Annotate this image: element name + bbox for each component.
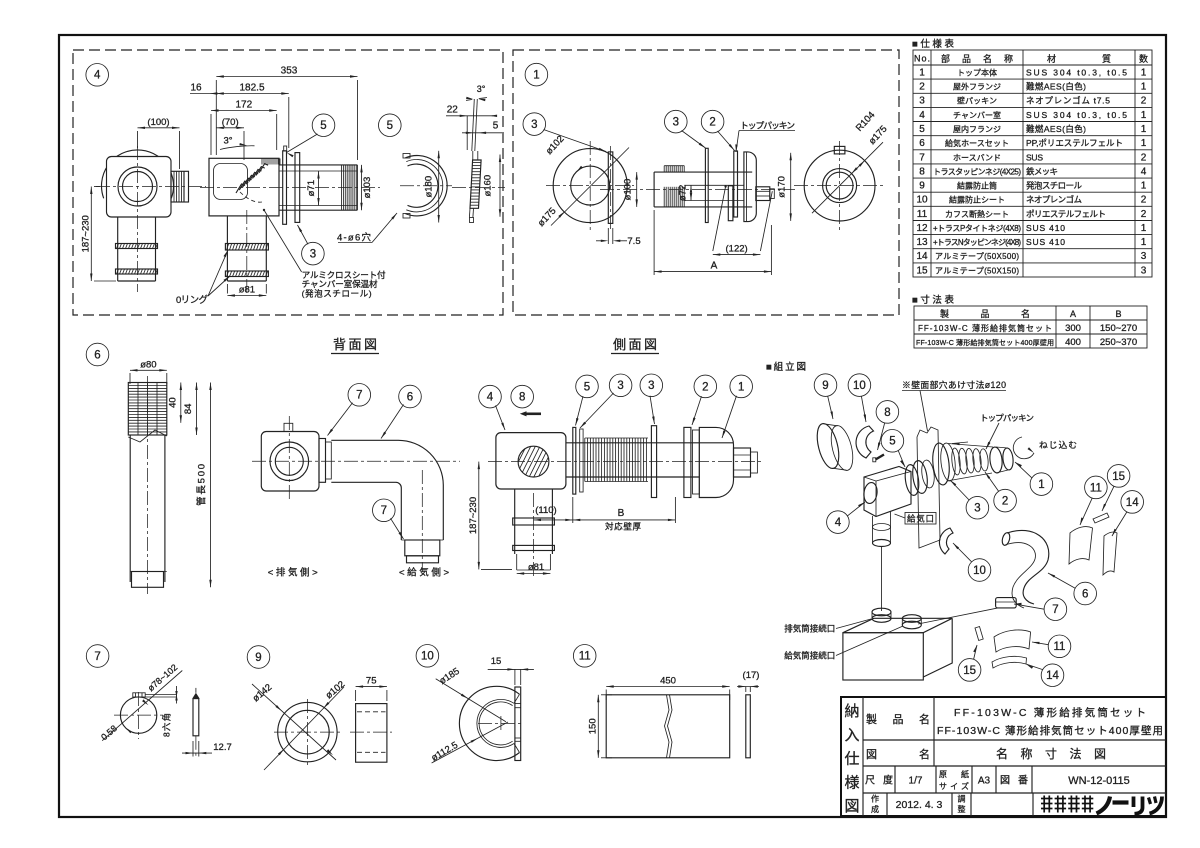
- svg-text:9: 9: [919, 181, 925, 192]
- svg-text:FF-103W-C 薄形給排気筒セット: FF-103W-C 薄形給排気筒セット: [954, 706, 1146, 719]
- bottom pipe: [516, 554, 518, 570]
- svg-text:13: 13: [916, 237, 928, 248]
- dim (122): [713, 254, 761, 256]
- dim 172: [211, 110, 277, 112]
- balloon 5: [881, 430, 904, 453]
- svg-text:3: 3: [310, 249, 316, 261]
- svg-text:発泡スチロール: 発泡スチロール: [1026, 181, 1082, 191]
- balloon 3: [302, 242, 325, 265]
- dim 182.5 + 16: [216, 93, 288, 95]
- packing front circle: [553, 149, 627, 223]
- thin sheet: [746, 695, 751, 758]
- corrugation near box: [261, 159, 263, 165]
- balloon 10: [968, 559, 991, 582]
- balloon 3b: [665, 110, 688, 133]
- svg-text:10: 10: [973, 565, 986, 577]
- balloon 8: [876, 401, 899, 424]
- side view 側面図: [468, 337, 764, 576]
- svg-text:トップ本体: トップ本体: [957, 68, 997, 78]
- svg-text:4: 4: [94, 70, 101, 82]
- balloon 11 detail: [573, 645, 596, 668]
- dim 12.7: [182, 752, 212, 754]
- svg-text:(70): (70): [222, 117, 239, 128]
- dim 353: [216, 76, 357, 78]
- svg-text:トップパッキン: トップパッキン: [740, 121, 795, 131]
- svg-text:3: 3: [1141, 251, 1147, 262]
- dim o72: [690, 185, 692, 200]
- svg-text:ø72: ø72: [678, 185, 689, 201]
- svg-text:1: 1: [738, 381, 744, 393]
- svg-text:製 品 名: 製 品 名: [866, 712, 930, 726]
- ring 9 side: [356, 704, 387, 763]
- svg-text:15: 15: [491, 656, 502, 667]
- balloon 9 detail: [247, 646, 270, 669]
- svg-text:サイズ: サイズ: [939, 781, 969, 791]
- dim 84: [196, 383, 198, 436]
- dim o81: [517, 573, 551, 575]
- inner cavity: [214, 164, 248, 200]
- down pipe: [514, 489, 516, 554]
- screw tip: [756, 187, 770, 201]
- svg-text:11: 11: [1054, 641, 1066, 653]
- svg-text:(17): (17): [743, 670, 760, 681]
- wall plate B: [295, 153, 300, 223]
- Noritz logo: [1041, 796, 1162, 814]
- svg-text:2: 2: [1141, 209, 1147, 220]
- svg-text:150: 150: [587, 718, 598, 734]
- svg-text:1/7: 1/7: [909, 776, 923, 787]
- end cap: [407, 556, 439, 563]
- centerline: [600, 189, 795, 191]
- exhaust ring outer: [118, 167, 157, 206]
- svg-text:3°: 3°: [223, 136, 232, 147]
- balloons with leaders: [479, 385, 502, 408]
- long pipe: [566, 442, 734, 444]
- chamber cut box: [209, 158, 279, 216]
- svg-text:アルミテープ(50X150): アルミテープ(50X150): [935, 266, 1019, 275]
- wall plate A: [283, 151, 287, 225]
- svg-text:10: 10: [916, 195, 928, 206]
- svg-text:A: A: [1070, 309, 1076, 319]
- svg-text:7: 7: [1052, 604, 1058, 616]
- svg-text:1: 1: [1141, 124, 1147, 135]
- flange side view tilted plate: [472, 99, 475, 151]
- svg-text:B: B: [618, 508, 625, 519]
- screw tip: [734, 448, 751, 477]
- svg-text:調: 調: [958, 794, 966, 804]
- pipe rib bands hatched: [116, 244, 158, 249]
- bar 15b: [975, 627, 983, 641]
- svg-text:排気筒接続口: 排気筒接続口: [784, 624, 835, 634]
- svg-text:(122): (122): [726, 243, 748, 254]
- svg-text:353: 353: [281, 66, 298, 77]
- svg-text:納: 納: [844, 703, 859, 720]
- clamp head: [133, 693, 145, 697]
- svg-text:172: 172: [235, 100, 252, 111]
- hose part 6 view: [86, 343, 212, 594]
- svg-text:FF-103W-C 薄形給排気筒セット400厚壁用: FF-103W-C 薄形給排気筒セット400厚壁用: [916, 338, 1054, 347]
- svg-text:2: 2: [1141, 152, 1147, 163]
- cut view down pipe: [226, 216, 228, 281]
- svg-text:給気口: 給気口: [907, 514, 934, 524]
- svg-text:0リング: 0リング: [176, 294, 208, 306]
- half ring 10 (opens right): [459, 686, 519, 760]
- c-sheet 10b: [939, 528, 953, 554]
- svg-text:2: 2: [1141, 195, 1147, 206]
- centerline: [488, 461, 764, 463]
- svg-text:難燃AES(白色): 難燃AES(白色): [1026, 82, 1086, 92]
- balloon 6: [1074, 582, 1097, 605]
- svg-text:7: 7: [919, 152, 925, 163]
- svg-text:+トラスNタッピンネジ(4X8): +トラスNタッピンネジ(4X8): [933, 238, 1021, 247]
- dim 150: [597, 695, 599, 758]
- svg-text:結露防止筒: 結露防止筒: [957, 181, 997, 191]
- diag o185: [436, 679, 506, 722]
- corrugation bands: [663, 166, 665, 172]
- svg-text:2: 2: [919, 82, 925, 93]
- sheet 11b: [994, 630, 1031, 652]
- dashed box section 1: [513, 50, 899, 315]
- svg-text:1: 1: [1141, 181, 1147, 192]
- svg-text:187~230: 187~230: [80, 215, 91, 252]
- svg-text:7: 7: [381, 505, 387, 517]
- svg-text:屋外フランジ: 屋外フランジ: [953, 82, 1001, 92]
- svg-text:※壁面部穴あけ寸法ø120: ※壁面部穴あけ寸法ø120: [902, 379, 1006, 390]
- svg-text:SUS: SUS: [1026, 152, 1043, 162]
- dim length 500: [210, 383, 212, 588]
- svg-text:16: 16: [190, 83, 202, 94]
- chamber 4: [864, 467, 911, 517]
- wall packing side: [608, 152, 613, 224]
- svg-text:カフス断熱シート: カフス断熱シート: [945, 209, 1009, 219]
- stub flange: [171, 171, 189, 202]
- svg-text:ポリエステルフェルト: ポリエステルフェルト: [1026, 209, 1106, 219]
- corrugation pipe end: [341, 165, 343, 210]
- svg-text:8六角: 8六角: [162, 713, 172, 737]
- svg-text:WN-12-0115: WN-12-0115: [1068, 775, 1130, 787]
- svg-text:製 品 名: 製 品 名: [940, 308, 1030, 319]
- diag o102: [264, 687, 344, 770]
- svg-text:3°: 3°: [477, 84, 486, 94]
- svg-text:6: 6: [407, 391, 413, 403]
- spec table 仕様表: [912, 38, 1152, 277]
- svg-text:5: 5: [493, 121, 499, 132]
- balloon 11: [1085, 476, 1108, 499]
- balloon 4: [86, 64, 109, 87]
- svg-text:1: 1: [1141, 110, 1147, 121]
- dim B: [573, 519, 676, 521]
- air inlet label: [905, 513, 936, 525]
- svg-text:7.5: 7.5: [627, 236, 640, 247]
- svg-text:5: 5: [320, 120, 326, 132]
- svg-text:ネオプレンゴム: ネオプレンゴム: [1026, 195, 1082, 205]
- svg-text:ø81: ø81: [239, 285, 255, 296]
- svg-text:2: 2: [702, 381, 708, 393]
- o-ring grooves hatched: [225, 244, 268, 251]
- svg-text:1: 1: [1141, 138, 1147, 149]
- svg-text:3: 3: [1141, 265, 1147, 276]
- svg-text:ねじ込む: ねじ込む: [1039, 440, 1077, 450]
- svg-text:(発泡スチロール): (発泡スチロール): [302, 288, 372, 299]
- chamber box back: [261, 432, 319, 492]
- svg-text:7: 7: [356, 390, 362, 402]
- svg-text:壁パッキン: 壁パッキン: [957, 96, 997, 106]
- pipe centerline: [200, 187, 380, 189]
- svg-text:75: 75: [366, 676, 377, 687]
- svg-text:給気筒接続口: 給気筒接続口: [784, 651, 835, 661]
- boiler stub 1: [872, 615, 891, 623]
- svg-text:10: 10: [853, 380, 866, 392]
- svg-text:8: 8: [519, 392, 525, 404]
- exhaust pipe outer: [279, 164, 357, 166]
- balloon 10: [848, 374, 871, 397]
- wall plate tall: [705, 148, 708, 222]
- hex dim 8: [176, 686, 178, 704]
- svg-text:6: 6: [919, 138, 925, 149]
- svg-text:鉄メッキ: 鉄メッキ: [1026, 166, 1058, 176]
- svg-text:FF-103W-C 薄形給排気筒セット400厚壁用: FF-103W-C 薄形給排気筒セット400厚壁用: [937, 724, 1163, 737]
- dim 15: [488, 668, 534, 670]
- svg-text:400: 400: [1065, 337, 1081, 348]
- hose corrugated section: [128, 383, 167, 436]
- svg-text:10: 10: [421, 651, 434, 663]
- svg-text:様: 様: [844, 774, 859, 791]
- plates right: [651, 426, 656, 498]
- dim A: [654, 271, 771, 273]
- svg-text:ø81: ø81: [528, 562, 544, 573]
- svg-text:A: A: [711, 261, 718, 272]
- head lines to dim: [145, 694, 176, 696]
- back view 背面図: [252, 337, 460, 579]
- svg-text:1: 1: [1141, 223, 1147, 234]
- svg-text:84: 84: [183, 404, 194, 415]
- screw-in arrow: [1013, 437, 1034, 459]
- svg-text:3: 3: [919, 96, 925, 107]
- elbow pipe: [331, 440, 443, 540]
- svg-text:300: 300: [1065, 323, 1081, 334]
- svg-text:ø180: ø180: [424, 176, 435, 198]
- dim 40: [180, 383, 182, 423]
- main box: [496, 433, 566, 489]
- svg-text:4: 4: [919, 110, 925, 121]
- svg-text:3: 3: [531, 119, 537, 131]
- screw 8: [876, 455, 885, 460]
- svg-text:トラスタッピンネジ(4X25): トラスタッピンネジ(4X25): [933, 167, 1021, 176]
- top tab: [284, 423, 293, 431]
- leader lines: [713, 187, 726, 252]
- svg-text:22: 22: [447, 105, 459, 116]
- svg-text:FF-103W-C 薄形給排気筒セット: FF-103W-C 薄形給排気筒セット: [918, 323, 1052, 333]
- svg-text:11: 11: [579, 651, 591, 663]
- svg-text:入: 入: [844, 727, 859, 744]
- balloon 14: [1121, 491, 1144, 514]
- svg-text:ø160: ø160: [483, 175, 494, 197]
- svg-text:15: 15: [1112, 471, 1125, 483]
- svg-text:6: 6: [1082, 588, 1088, 600]
- svg-text:182.5: 182.5: [239, 83, 264, 94]
- svg-text:背面図: 背面図: [333, 337, 377, 352]
- assembly diagram 組立図: [766, 361, 1143, 687]
- svg-text:ø103: ø103: [362, 177, 373, 199]
- svg-text:図 番: 図 番: [1000, 775, 1028, 787]
- dim o81: [227, 295, 266, 297]
- svg-text:1: 1: [533, 70, 539, 82]
- svg-text:PP,ポリエステルフェルト: PP,ポリエステルフェルト: [1026, 138, 1123, 148]
- svg-text:作: 作: [871, 794, 879, 804]
- dim o180 side: [438, 151, 440, 223]
- c-sheet 10: [856, 426, 873, 458]
- svg-text:5: 5: [889, 436, 895, 448]
- dim table 寸法表: [912, 294, 1147, 348]
- chamber stub: [872, 516, 874, 543]
- svg-text:14: 14: [916, 251, 928, 262]
- dim o103: [361, 165, 363, 210]
- svg-text:チャンバー室保温材: チャンバー室保温材: [302, 278, 378, 289]
- balloon 11: [1048, 635, 1071, 658]
- svg-text:40: 40: [167, 397, 178, 408]
- svg-text:数: 数: [1139, 53, 1148, 64]
- diag o112.5: [432, 722, 508, 763]
- svg-text:187~230: 187~230: [468, 497, 479, 534]
- svg-text:15: 15: [916, 265, 928, 276]
- bottom detail views: [86, 645, 759, 771]
- piece 10 side: [515, 687, 521, 761]
- down pipe front: [117, 217, 119, 281]
- svg-text:11: 11: [1090, 482, 1102, 494]
- sheet 14b: [992, 656, 1027, 668]
- balloon 3 wall packing: [523, 113, 546, 136]
- balloon 7: [1044, 598, 1067, 621]
- screw symbol 8: [520, 411, 527, 416]
- svg-text:B: B: [1115, 309, 1121, 319]
- section 4 detail view: [80, 64, 505, 307]
- dim o170: [790, 153, 792, 221]
- boiler box: [843, 618, 952, 632]
- svg-text:4: 4: [835, 517, 842, 529]
- dim o80: [130, 369, 167, 371]
- svg-text:A3: A3: [978, 776, 991, 787]
- flange tabs: [403, 154, 410, 159]
- svg-text:仕: 仕: [844, 751, 859, 768]
- chamber front view outer circle: [102, 150, 174, 198]
- svg-text:SUS 304 t0.3, t0.5: SUS 304 t0.3, t0.5: [1026, 110, 1127, 120]
- wall plate: [917, 427, 940, 548]
- svg-text:12: 12: [916, 223, 928, 234]
- svg-text:対応壁厚: 対応壁厚: [605, 522, 641, 532]
- svg-text:9: 9: [822, 380, 828, 392]
- svg-text:7: 7: [94, 651, 100, 663]
- main pipe: [654, 171, 752, 173]
- dim 187~230: [478, 462, 480, 570]
- o170 flange front: [804, 150, 875, 221]
- ring: [270, 442, 309, 481]
- svg-text:ø80: ø80: [140, 359, 156, 370]
- flange small: [319, 439, 326, 483]
- svg-text:9: 9: [255, 652, 261, 664]
- svg-text:(110): (110): [535, 505, 556, 516]
- svg-text:14: 14: [1046, 670, 1059, 682]
- svg-text:250~370: 250~370: [1100, 337, 1137, 348]
- svg-text:3: 3: [648, 380, 654, 392]
- dashed box section 4: [73, 50, 503, 315]
- outer flange: [699, 427, 733, 497]
- bottom cap: [132, 572, 164, 588]
- svg-text:5: 5: [387, 120, 393, 132]
- svg-text:尺 度: 尺 度: [865, 774, 893, 787]
- flange5 ellipses: [903, 464, 920, 497]
- diag o142: [252, 684, 336, 760]
- balloon 14: [1041, 664, 1064, 687]
- plate tall2: [734, 151, 738, 217]
- svg-text:5: 5: [584, 381, 590, 393]
- svg-text:450: 450: [660, 676, 676, 687]
- svg-text:図: 図: [844, 798, 859, 815]
- o180 C flange: [405, 156, 447, 216]
- balloon 10 detail: [416, 645, 439, 668]
- chamber front square: [107, 157, 172, 218]
- top body assembly: [931, 442, 951, 485]
- balloon 1: [1030, 473, 1053, 496]
- svg-text:SUS 410: SUS 410: [1026, 223, 1065, 233]
- sheet 11 rect: [606, 695, 730, 758]
- balloon 5a: [312, 114, 335, 137]
- cut pipe centerline: [246, 210, 248, 296]
- hose 6: [1007, 530, 1049, 604]
- sheet 11: [1069, 527, 1093, 564]
- svg-text:2: 2: [1002, 496, 1008, 508]
- svg-text:3: 3: [974, 503, 980, 515]
- centerline: [147, 376, 149, 594]
- svg-text:+トラスPタイトネジ(4X8): +トラスPタイトネジ(4X8): [933, 224, 1021, 233]
- svg-text:2: 2: [1141, 96, 1147, 107]
- svg-text:ホースバンド: ホースバンド: [953, 153, 1001, 162]
- dim 7.5: [596, 240, 604, 242]
- dim o160 side: [499, 155, 501, 217]
- svg-text:成: 成: [871, 804, 879, 814]
- svg-text:チャンバー室: チャンバー室: [953, 110, 1001, 120]
- svg-text:給気ホースセット: 給気ホースセット: [945, 138, 1009, 148]
- svg-text:6: 6: [94, 349, 100, 361]
- svg-text:4-ø6穴: 4-ø6穴: [337, 232, 371, 244]
- dim 450: [606, 686, 730, 688]
- dim (17): [737, 686, 759, 688]
- svg-text:アルミテープ(50X500): アルミテープ(50X500): [935, 252, 1019, 261]
- svg-text:14: 14: [1126, 497, 1139, 509]
- tape roll 9: [813, 421, 843, 470]
- svg-text:3: 3: [673, 117, 679, 129]
- svg-text:ø71: ø71: [306, 180, 317, 196]
- svg-text:1: 1: [1141, 82, 1147, 93]
- balloon 4: [827, 511, 850, 534]
- balloon 9: [814, 374, 837, 397]
- dim 75: [356, 686, 387, 688]
- balloon 2: [701, 110, 724, 133]
- svg-text:SUS 304 t0.3, t0.5: SUS 304 t0.3, t0.5: [1026, 68, 1127, 78]
- band side view: [193, 699, 199, 736]
- svg-text:1: 1: [1141, 68, 1147, 79]
- dim o100: [636, 172, 638, 207]
- svg-text:トップパッキン: トップパッキン: [980, 413, 1034, 423]
- svg-text:150~270: 150~270: [1100, 323, 1137, 334]
- svg-text:3: 3: [617, 380, 623, 392]
- svg-text:4: 4: [487, 392, 494, 404]
- svg-text:5: 5: [919, 124, 925, 135]
- diag 0.58 o78~102: [102, 671, 182, 741]
- dim o71: [318, 171, 320, 206]
- svg-text:15: 15: [963, 665, 976, 677]
- hatched stack: [470, 160, 481, 208]
- title block: [841, 697, 1166, 816]
